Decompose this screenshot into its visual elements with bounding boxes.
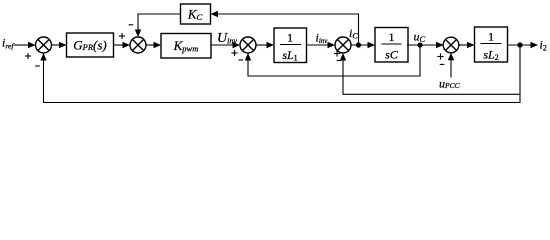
wire u_PCC input up into S5 — [450, 59, 452, 78]
wire 1/sL1 to summer S4 — [307, 44, 330, 46]
sign - at S2 — [129, 24, 134, 26]
block Kpwm — [161, 34, 211, 59]
wire 1/sC to summer S5 with node dot — [407, 44, 437, 46]
svg-text:1: 1 — [287, 31, 293, 45]
sign - at S4 — [337, 60, 342, 62]
svg-text:sC: sC — [385, 48, 399, 62]
wire S1 to GPR — [52, 44, 61, 46]
node dot i2 — [517, 42, 522, 47]
sign + at S5 — [437, 53, 443, 59]
sign - at S1 — [35, 65, 40, 67]
wire i_ref to summer S1 — [14, 44, 30, 46]
sign - at S3 — [239, 59, 244, 61]
wire Kpwm to summer S3 — [211, 44, 234, 46]
wire u_C feedback down and left into S3 — [248, 45, 420, 76]
block K_C — [181, 4, 211, 24]
sign - at S5 — [440, 63, 445, 65]
wire i2 feedback to S4 — [343, 45, 520, 94]
summing junction S4 — [335, 37, 351, 53]
wire K_C output down into S2 — [138, 14, 181, 31]
svg-text:1: 1 — [389, 30, 395, 44]
block 1/sC — [375, 28, 408, 63]
summing junction S1 — [36, 37, 52, 53]
wire GPR to summer S2 — [114, 44, 125, 46]
wire S2 to Kpwm — [146, 44, 155, 46]
sign + at S3 — [231, 50, 237, 56]
wire i_C node up and left into K_C — [217, 14, 359, 45]
svg-text:1: 1 — [488, 30, 494, 44]
sign + at S2 — [119, 33, 125, 39]
sign + at S4 — [334, 50, 340, 56]
block GPR(s) — [67, 33, 114, 57]
block 1/sL1 — [274, 28, 307, 63]
wire S3 to 1/sL1 — [256, 44, 268, 46]
summing junction S3 — [240, 37, 256, 53]
summing junction S5 — [443, 37, 459, 53]
wire S5 to 1/sL2 — [459, 44, 468, 46]
block 1/sL2 — [475, 27, 508, 62]
wire 1/sL2 to output i2 with node dot — [508, 44, 533, 46]
node dot i_C — [356, 42, 361, 47]
wire S4 to 1/sC with node dot — [351, 44, 369, 46]
summing junction S2 — [130, 37, 146, 53]
wire i2 feedback bottom to S1 — [44, 60, 521, 103]
sign + at S1 — [25, 53, 31, 59]
node dot u_C — [417, 42, 422, 47]
